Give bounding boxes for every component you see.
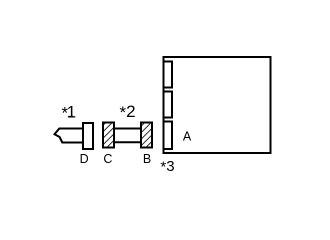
svg-text:C: C [103,152,112,166]
plug shaft (top line) [113,128,142,130]
plug tip pin with break [55,129,85,143]
jack contact 1 (top) [164,62,173,88]
contact ring B (hatched) [141,123,152,148]
plug shaft (bottom line) [113,141,142,143]
svg-text:*2: *2 [120,102,136,122]
svg-text:*1: *1 [62,102,77,122]
contact ring C (hatched) [103,123,114,148]
svg-text:A: A [183,129,192,143]
svg-text:B: B [143,152,151,166]
insulator D [83,123,93,149]
svg-text:D: D [80,152,89,166]
label *1 foot serif of digit 1 [68,116,73,118]
jack contact 3 (bottom) [164,122,173,150]
jack body box [164,57,271,153]
jack contact 2 (middle) [164,92,173,118]
svg-text:*3: *3 [160,158,174,175]
